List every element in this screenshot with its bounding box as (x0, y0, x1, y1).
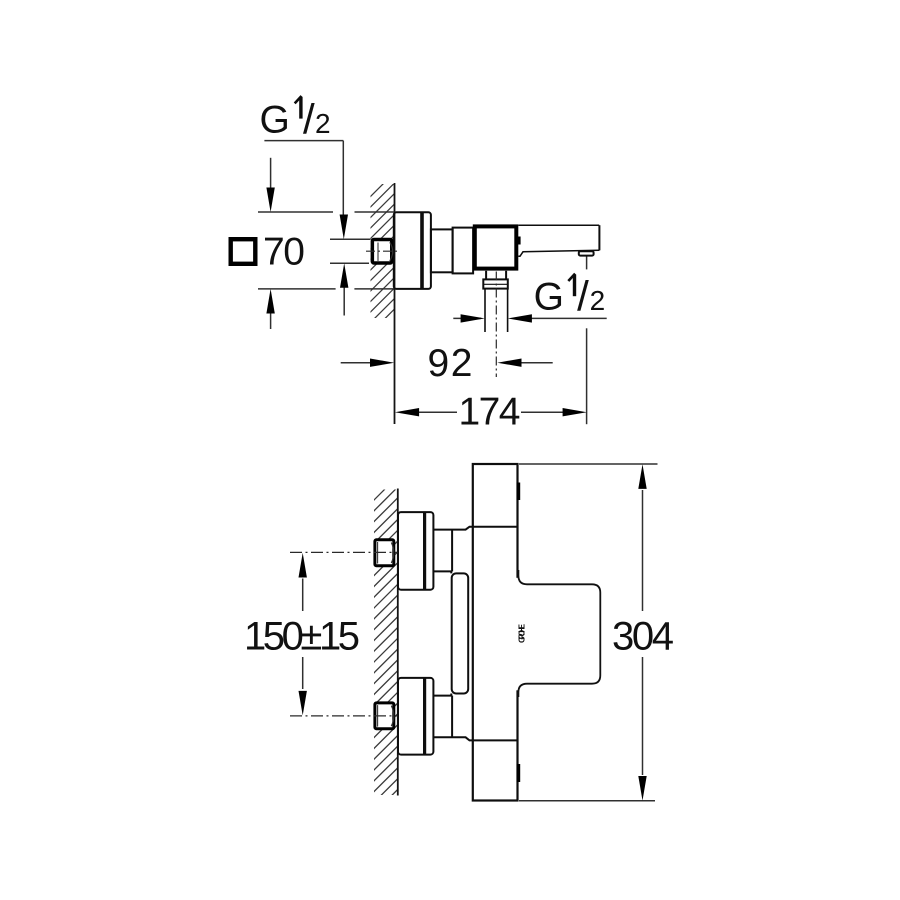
svg-text:GROHE: GROHE (517, 624, 527, 643)
svg-text:92: 92 (428, 342, 473, 385)
svg-text:/: / (303, 96, 315, 143)
svg-text:/: / (577, 272, 589, 319)
svg-text:2: 2 (315, 108, 331, 139)
svg-text:304: 304 (612, 615, 674, 659)
svg-text:2: 2 (590, 285, 606, 316)
svg-text:G: G (260, 99, 290, 142)
svg-text:70: 70 (263, 230, 305, 273)
svg-text:174: 174 (459, 391, 521, 434)
svg-text:150±15: 150±15 (244, 614, 360, 658)
svg-text:G: G (534, 275, 564, 318)
